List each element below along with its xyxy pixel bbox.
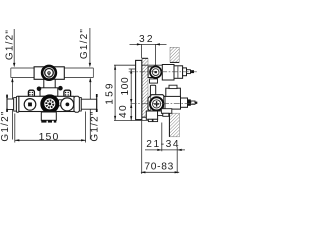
stub below upper body bbox=[44, 79, 55, 90]
main cartridge side bbox=[165, 96, 181, 109]
dim 21-34 extensions bbox=[162, 123, 177, 174]
svg-text:32: 32 bbox=[139, 34, 155, 45]
wall hatch upper-left strip bbox=[142, 58, 148, 117]
main centerline bbox=[131, 103, 197, 105]
svg-text:159: 159 bbox=[105, 81, 116, 105]
upper block on main bbox=[166, 88, 181, 97]
svg-text:G1/2": G1/2" bbox=[5, 29, 16, 60]
wire top pipe left bbox=[11, 68, 34, 78]
wall hatch upper-right patch bbox=[170, 47, 179, 62]
main cartridge circle bbox=[42, 96, 57, 111]
dim 21-34 line bbox=[145, 149, 185, 151]
svg-text:21-34: 21-34 bbox=[146, 139, 180, 150]
top port circle bbox=[150, 66, 161, 77]
main body bbox=[19, 96, 74, 111]
svg-text:100: 100 bbox=[120, 77, 131, 96]
small link block bbox=[59, 100, 63, 106]
leader G1/2 right bbox=[89, 28, 91, 140]
wall hatch lower patch bbox=[169, 113, 179, 137]
upper body bbox=[34, 67, 64, 80]
dim 70-83 extension bbox=[141, 120, 143, 174]
screw dot right bbox=[58, 86, 63, 91]
neck below top circle bbox=[150, 79, 158, 83]
svg-text:G1/2": G1/2" bbox=[79, 28, 90, 59]
svg-text:150: 150 bbox=[39, 131, 60, 143]
left fitting bbox=[7, 99, 14, 110]
dim 159 line bbox=[114, 65, 116, 120]
top centerline bbox=[129, 71, 197, 73]
raised block bbox=[40, 88, 58, 97]
leader G1/2 top-left bbox=[12, 29, 14, 140]
svg-text:G1/2": G1/2" bbox=[90, 110, 101, 141]
dim 150 line bbox=[15, 139, 86, 141]
top cartridge body bbox=[162, 65, 174, 81]
knurl knob left on body bbox=[28, 90, 34, 97]
upper circle (diverter) bbox=[42, 66, 56, 80]
main port circle bbox=[150, 97, 163, 110]
wire top pipe right bbox=[64, 68, 93, 78]
dim 100/40 line bbox=[130, 69, 132, 121]
stem cylinder bbox=[150, 85, 155, 96]
svg-text:G1/2": G1/2" bbox=[0, 110, 11, 141]
dim 70-83 line bbox=[141, 171, 179, 173]
body bottom block bbox=[146, 111, 157, 119]
dim 159 extensions bbox=[114, 65, 162, 120]
right fitting bbox=[74, 96, 79, 112]
left plug circle bbox=[24, 99, 36, 111]
dim 32 line bbox=[130, 43, 167, 45]
right plug circle bbox=[61, 98, 74, 111]
dim 150 extension lines bbox=[15, 112, 86, 143]
svg-text:70-83: 70-83 bbox=[144, 162, 174, 173]
screw dot left bbox=[37, 87, 42, 92]
svg-text:40: 40 bbox=[118, 104, 129, 118]
main hex bbox=[148, 95, 166, 113]
dim 32 extensions bbox=[141, 44, 155, 67]
bottom outlet stub bbox=[41, 112, 56, 120]
knurl knob right on body bbox=[64, 90, 71, 97]
flange plate bbox=[136, 60, 142, 119]
top port neck bbox=[148, 67, 153, 78]
